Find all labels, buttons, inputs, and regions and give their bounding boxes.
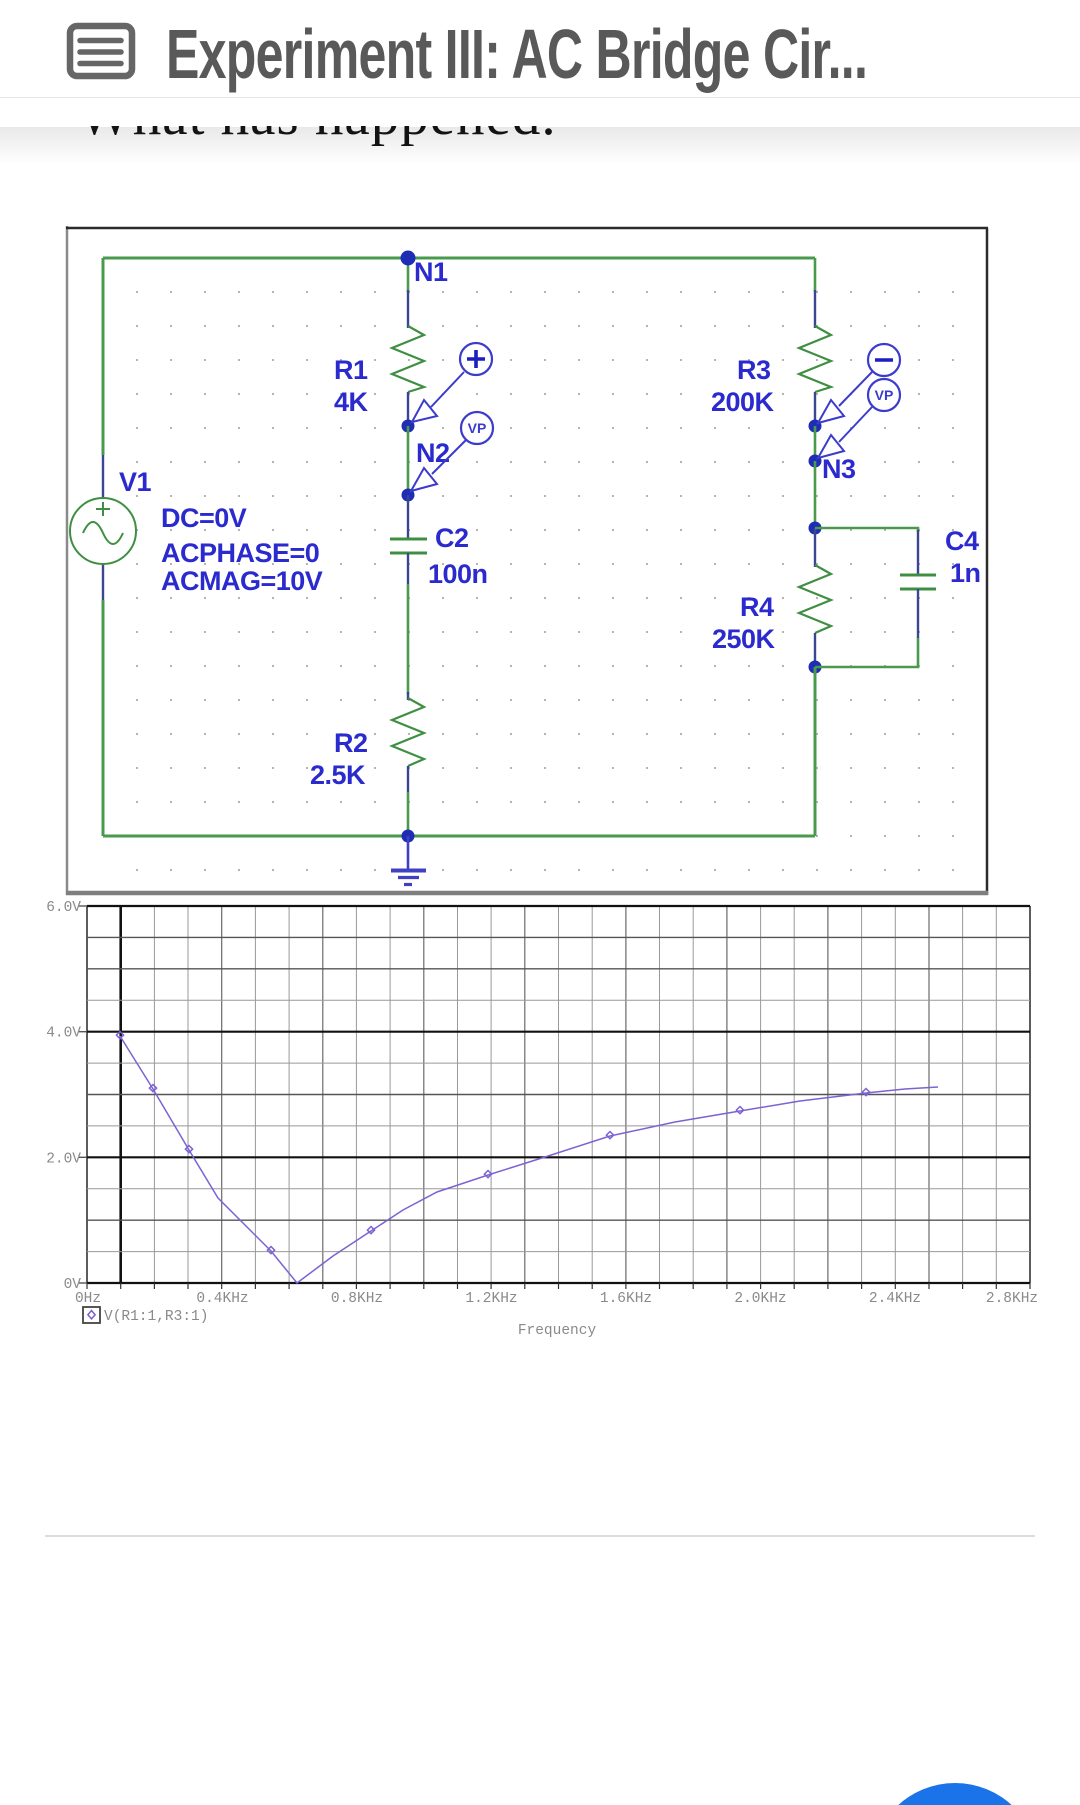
schematic frame left border <box>66 226 69 895</box>
svg-text:R3: R3 <box>737 355 771 385</box>
schematic frame right border <box>986 228 989 895</box>
svg-text:2.8KHz: 2.8KHz <box>986 1291 1038 1307</box>
node dot at R3 bottom <box>809 420 822 433</box>
floating action button <box>871 1783 1039 1805</box>
graph grid vertical lines <box>87 906 1030 1283</box>
resistor R1 <box>392 326 424 392</box>
wire C4 branch bottom <box>815 638 918 667</box>
svg-text:2.4KHz: 2.4KHz <box>869 1291 921 1307</box>
svg-text:N3: N3 <box>822 454 856 484</box>
V1 pin bottom lead <box>102 564 104 600</box>
resistor R4 <box>799 565 831 633</box>
svg-text:R4: R4 <box>740 592 774 622</box>
svg-text:0.4KHz: 0.4KHz <box>196 1291 248 1307</box>
wire bottom rail <box>103 835 815 838</box>
svg-text:ACPHASE=0: ACPHASE=0 <box>161 538 319 568</box>
svg-text:1.6KHz: 1.6KHz <box>600 1291 652 1307</box>
legend box <box>83 1307 100 1323</box>
R4 pin bottom <box>814 633 816 667</box>
resistor R3 <box>799 326 831 392</box>
svg-text:V1: V1 <box>119 467 152 497</box>
svg-text:DC=0V: DC=0V <box>161 503 247 533</box>
svg-text:4.0V: 4.0V <box>46 1026 81 1042</box>
node dot parallel top <box>809 522 822 535</box>
V1 pin top lead <box>102 455 104 498</box>
node dot N3 <box>809 455 822 468</box>
R3 pin bottom <box>814 392 816 426</box>
svg-text:1n: 1n <box>950 558 981 588</box>
svg-text:200K: 200K <box>711 387 775 417</box>
svg-text:ACMAG=10V: ACMAG=10V <box>161 566 323 596</box>
svg-text:0.8KHz: 0.8KHz <box>331 1291 383 1307</box>
node dot at R1 bottom <box>402 420 415 433</box>
ground <box>391 836 426 885</box>
probe marker V- <box>818 344 900 423</box>
svg-text:C4: C4 <box>945 526 979 556</box>
wire between probe nodes <box>407 426 410 495</box>
wire top rail to R3 <box>814 258 817 292</box>
svg-text:R1: R1 <box>334 355 368 385</box>
svg-text:VP: VP <box>875 387 894 403</box>
svg-text:N1: N1 <box>414 257 448 287</box>
node dot ground junction <box>402 830 415 843</box>
svg-text:N2: N2 <box>416 438 450 468</box>
svg-text:Frequency: Frequency <box>518 1323 597 1339</box>
y axis labels <box>46 900 87 1293</box>
wire C4 branch top <box>815 528 918 532</box>
R2 pin bottom <box>407 766 409 792</box>
svg-text:250K: 250K <box>712 624 776 654</box>
divider <box>45 1535 1035 1537</box>
probe marker VP (N3) <box>818 379 900 458</box>
C2 pin bottom <box>407 553 409 584</box>
R1 pin bottom <box>407 392 409 425</box>
R3 pin top <box>814 290 816 328</box>
svg-text:C2: C2 <box>435 523 469 553</box>
svg-text:1.2KHz: 1.2KHz <box>465 1291 517 1307</box>
wire N1 to R1 <box>407 258 410 292</box>
R1 pin top <box>407 290 409 328</box>
wire R2 to ground rail <box>407 792 410 836</box>
svg-text:6.0V: 6.0V <box>46 900 81 916</box>
C4 pin bottom <box>917 589 919 638</box>
node dot N2 <box>402 489 415 502</box>
toolbar document icon <box>0 0 180 97</box>
R2 pin top <box>407 692 409 700</box>
graph grid horizontal lines <box>87 906 1030 1283</box>
toolbar title <box>166 19 867 89</box>
svg-text:2.0KHz: 2.0KHz <box>734 1291 786 1307</box>
svg-text:R2: R2 <box>334 728 368 758</box>
voltage source V1 <box>70 498 136 564</box>
C4 pin top <box>917 530 919 575</box>
wire left branch lower <box>102 600 105 836</box>
trace data markers <box>116 1032 869 1254</box>
schematic frame bottom border <box>66 891 988 896</box>
clipped heading 'What has happened.' <box>0 126 1080 186</box>
wire C2 to R2 <box>407 584 410 694</box>
node dot N1 <box>401 251 416 266</box>
x axis ticks <box>87 1283 1030 1289</box>
svg-text:4K: 4K <box>334 387 369 417</box>
svg-text:2.0V: 2.0V <box>46 1151 81 1167</box>
wire top rail N1 <box>103 257 815 260</box>
svg-text:VP: VP <box>468 420 487 436</box>
toolbar <box>0 0 1080 98</box>
probe marker VP (N2) <box>411 412 493 491</box>
capacitor C2 <box>390 539 427 553</box>
C2 pin top <box>407 495 409 539</box>
top shadow gradient under heading <box>0 127 1080 165</box>
svg-text:2.5K: 2.5K <box>310 760 366 790</box>
wire parallel bottom to bottom rail <box>814 667 817 836</box>
schematic frame top border <box>66 227 988 230</box>
node dot parallel bottom <box>809 661 822 674</box>
wire probe node to N3 <box>814 426 817 461</box>
svg-text:V(R1:1,R3:1): V(R1:1,R3:1) <box>104 1309 208 1325</box>
wire N3 to parallel section <box>814 461 817 528</box>
svg-text:0Hz: 0Hz <box>75 1291 101 1307</box>
resistor R2 <box>392 698 424 766</box>
x axis labels <box>75 1291 1038 1307</box>
wire left branch upper <box>102 258 105 455</box>
trace V(R1:1,R3:1) <box>120 1036 938 1283</box>
R4 pin top <box>814 528 816 567</box>
capacitor C4 <box>900 575 936 589</box>
probe marker V+ <box>412 343 492 422</box>
svg-text:100n: 100n <box>428 559 488 589</box>
